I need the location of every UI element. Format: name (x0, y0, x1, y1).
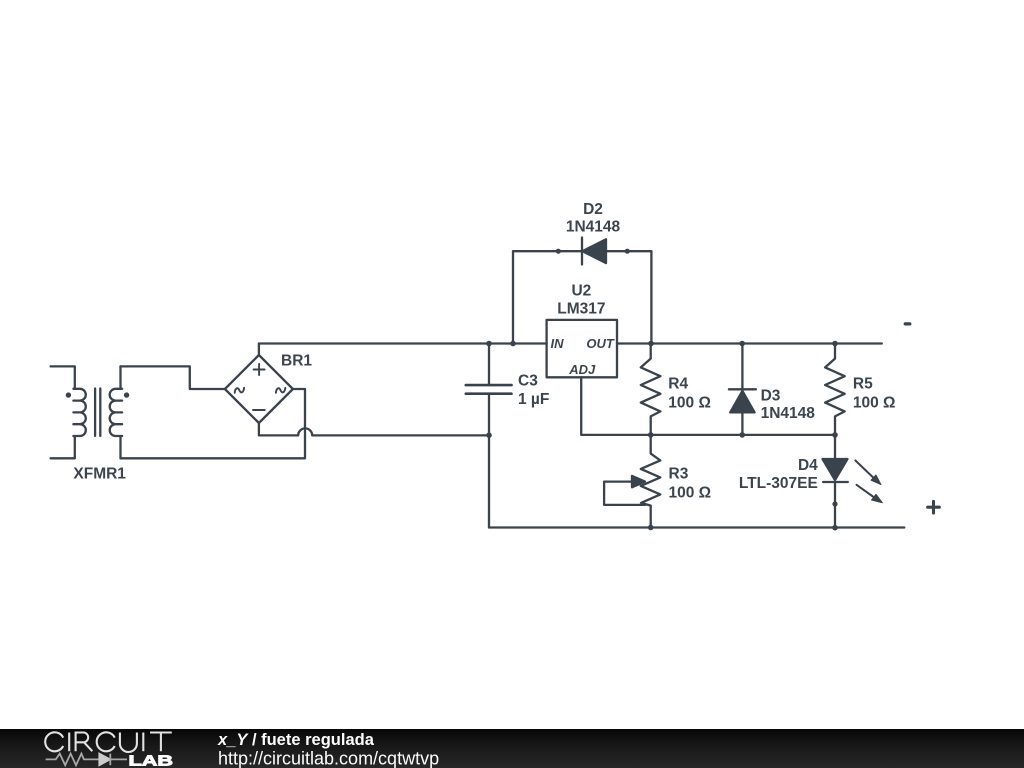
secondary top lead (119, 366, 121, 388)
light arrow 2 shaft (857, 485, 875, 498)
CircuitLab logo resistor-diode glyph (46, 754, 127, 766)
secondary phase dot (124, 392, 129, 397)
terminal minus (905, 322, 910, 325)
svg-text:LM317: LM317 (557, 300, 605, 317)
svg-text:LTL-307EE: LTL-307EE (739, 475, 818, 492)
svg-text:R4: R4 (668, 376, 688, 393)
svg-text:XFMR1: XFMR1 (73, 466, 126, 483)
diamond body (225, 355, 293, 423)
svg-text:LAB: LAB (129, 752, 174, 768)
wire C3 bottom node to bottom rail (488, 435, 490, 527)
svg-text:100 Ω: 100 Ω (669, 484, 712, 501)
junction C3 bottom node (486, 432, 492, 438)
svg-text:R5: R5 (853, 376, 873, 393)
cathode lead (834, 482, 836, 528)
wire D2 to OUT node (627, 251, 651, 343)
wire bridge plus output up to top rail (258, 344, 260, 356)
svg-text:1N4148: 1N4148 (761, 405, 816, 422)
wire bottom rail to plus terminal (489, 526, 904, 528)
pin dot left (556, 249, 561, 254)
anode lead (741, 412, 743, 435)
svg-text:x_Y / fuete regulada: x_Y / fuete regulada (217, 731, 375, 749)
wire bridge minus output with hop over crossing wire (259, 423, 489, 435)
junction R5 top on top rail (832, 341, 838, 347)
light arrow 1 head (871, 475, 881, 485)
bridge rectifier BR1 (225, 355, 293, 423)
primary bottom lead (51, 436, 75, 458)
junction R5 bottom LED top node (832, 432, 838, 438)
svg-text:100 Ω: 100 Ω (853, 394, 896, 411)
terminal plus (928, 501, 940, 513)
svg-text:OUT: OUT (586, 336, 615, 351)
light arrow 1 shaft (855, 460, 874, 478)
svg-text:D2: D2 (583, 201, 603, 218)
light arrow 2 head (872, 494, 883, 503)
svg-text:100 Ω: 100 Ω (668, 394, 711, 411)
svg-text:D4: D4 (798, 457, 818, 474)
cathode bar (729, 388, 756, 390)
svg-text:U2: U2 (571, 283, 591, 300)
left AC tilde (235, 388, 244, 393)
junction LED bottom on bottom rail (832, 525, 838, 531)
bottom lead (488, 394, 490, 436)
wiper arrow (632, 476, 645, 487)
footer bar (0, 729, 1024, 768)
wire top rail left segment to LM317 IN pin (259, 342, 547, 344)
resistor R4 (641, 344, 661, 435)
core lines (95, 389, 100, 436)
wire secondary top to bridge AC1 input (121, 366, 225, 389)
primary phase dot (66, 392, 71, 397)
triangle (823, 459, 848, 480)
junction D2 branch on top rail (510, 341, 516, 347)
top lead (488, 344, 490, 386)
diode D2 (556, 238, 630, 265)
wire D2 anode branch from top rail (513, 251, 558, 343)
junction C3 top on top rail (486, 341, 492, 347)
wire secondary bottom to bridge AC2 input (121, 389, 306, 458)
svg-text:D3: D3 (761, 387, 781, 404)
potentiometer R3 (604, 435, 660, 528)
top plate (466, 384, 512, 387)
cathode bar (581, 238, 583, 265)
cathode bar (823, 481, 848, 483)
triangle (730, 391, 754, 412)
cathode lead (741, 344, 743, 390)
junction OUT node (648, 341, 654, 347)
primary winding coil (73, 389, 85, 436)
primary top lead (51, 366, 75, 388)
wire top rail right segment from OUT pin to minus terminal (617, 342, 882, 344)
anode lead (834, 435, 836, 459)
junction ADJ R4 R3 node (648, 432, 654, 438)
minus mark (253, 409, 265, 411)
svg-text:BR1: BR1 (281, 353, 312, 370)
secondary winding coil (110, 389, 122, 436)
svg-text:ADJ: ADJ (568, 362, 596, 377)
svg-text:1 µF: 1 µF (518, 391, 549, 408)
resistive element zigzag (641, 435, 661, 528)
wiper return wire (604, 482, 645, 505)
svg-text:IN: IN (551, 336, 565, 351)
anode lead (558, 250, 582, 252)
pin dot (832, 501, 837, 506)
pin dot right (625, 249, 630, 254)
junction D3 bottom on mid rail (739, 432, 745, 438)
secondary bottom lead (119, 436, 121, 458)
svg-text:C3: C3 (518, 373, 538, 390)
junction R3 bottom on bottom rail (648, 525, 654, 531)
transformer XFMR1 (51, 366, 130, 458)
svg-text:http://circuitlab.com/cqtwtvp: http://circuitlab.com/cqtwtvp (218, 749, 439, 768)
triangle (583, 239, 607, 263)
svg-text:R3: R3 (669, 466, 689, 483)
plus mark (254, 364, 265, 375)
right AC tilde (276, 388, 285, 393)
svg-text:1N4148: 1N4148 (566, 219, 621, 236)
cathode lead (606, 250, 627, 252)
wire ADJ pin to mid rail (581, 377, 835, 435)
CircuitLab logo wordmark CIRCUIT (45, 732, 172, 752)
LED D4 (823, 435, 883, 528)
diode D3 (729, 344, 756, 435)
resistor R5 (825, 344, 845, 435)
body box (547, 320, 617, 377)
bottom plate (466, 392, 512, 395)
junction D3 top on top rail (739, 341, 745, 347)
capacitor C3 (466, 344, 512, 436)
voltage regulator U2 LM317 (547, 320, 617, 377)
